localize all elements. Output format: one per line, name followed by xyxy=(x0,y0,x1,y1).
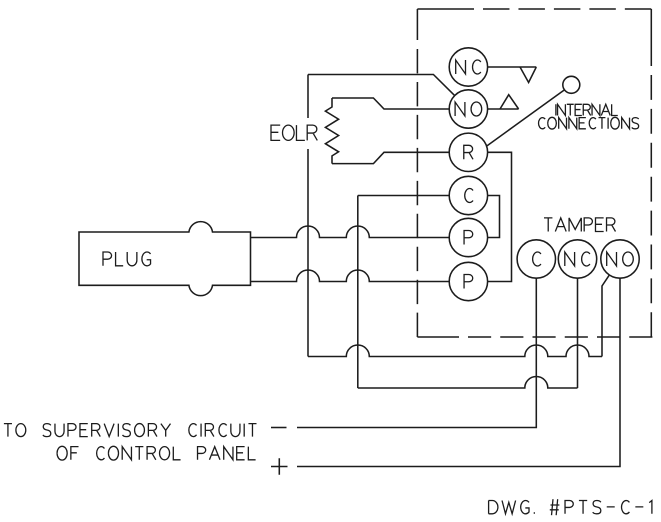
label CONNECTIONS xyxy=(539,117,639,129)
terminal NC xyxy=(449,48,487,86)
label OF CONTROL PANEL xyxy=(57,446,256,460)
NC contact symbol (open triangle) xyxy=(520,67,536,83)
dashed enclosure (internal connections box) xyxy=(417,9,652,337)
wire switch arm from pole to R xyxy=(487,90,565,146)
minus symbol xyxy=(271,427,287,429)
wire lower bus 1 (riser to tamper NO) xyxy=(308,345,602,357)
wire tamper C to minus terminal xyxy=(297,278,536,427)
wire tamper NO to plus terminal xyxy=(297,278,620,466)
label TO SUPERVISORY CIRCUIT xyxy=(4,424,257,437)
tamper terminal C xyxy=(517,240,555,278)
wire plug to P1 (hops risers) xyxy=(251,226,450,238)
label INTERNAL xyxy=(556,104,618,115)
wire bracket C to P1 xyxy=(488,196,500,238)
NO contact symbol (open triangle) xyxy=(500,95,519,109)
terminal C xyxy=(449,176,487,214)
terminal R xyxy=(449,133,487,171)
wire NC terminal to NC contact xyxy=(488,66,537,68)
terminal P1 xyxy=(449,218,487,256)
wire C terminal to second riser xyxy=(358,195,450,197)
switch common pole circle xyxy=(563,76,580,93)
label #PTS-C-1 xyxy=(550,499,652,515)
terminal P2 xyxy=(449,262,487,300)
resistor EOLR zigzag xyxy=(325,98,338,164)
wire top link to NO terminal xyxy=(308,75,455,96)
wire EOLR bottom lead to R xyxy=(332,152,449,163)
wire plug to P2 (hops risers) xyxy=(251,270,450,282)
plug body xyxy=(79,222,251,296)
wire lower bus 2 (riser 2 to tamper NC) xyxy=(358,377,578,388)
wire NO terminal to NO contact xyxy=(488,108,519,110)
label PLUG xyxy=(103,252,151,266)
label EOLR xyxy=(266,118,319,149)
wire EOLR top lead to NO xyxy=(332,98,449,109)
wire tamper NC drop xyxy=(577,278,579,388)
wire second vertical riser xyxy=(357,196,359,389)
label TAMPER xyxy=(544,218,616,232)
tamper terminal NO xyxy=(601,240,639,278)
tamper terminal NC xyxy=(558,240,596,278)
wire bracket R to P2 xyxy=(488,152,512,281)
plus symbol xyxy=(271,458,288,474)
wire left vertical riser xyxy=(307,75,309,357)
label DWG. xyxy=(489,500,535,513)
terminal NO xyxy=(449,90,487,128)
wire tamper NO to bus 1 xyxy=(602,275,609,356)
